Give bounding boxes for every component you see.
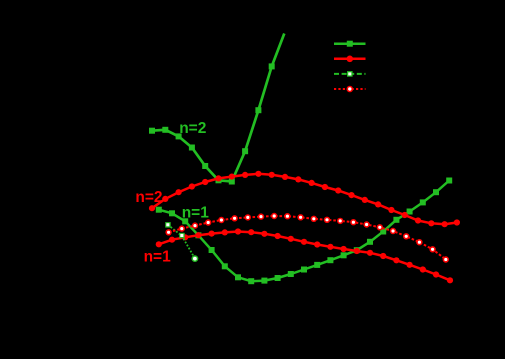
svg-text:n=1: n=1 (182, 204, 210, 221)
svg-text:n=2: n=2 (179, 120, 206, 137)
svg-text:n=1: n=1 (144, 249, 172, 266)
svg-text:n=2: n=2 (135, 189, 162, 206)
